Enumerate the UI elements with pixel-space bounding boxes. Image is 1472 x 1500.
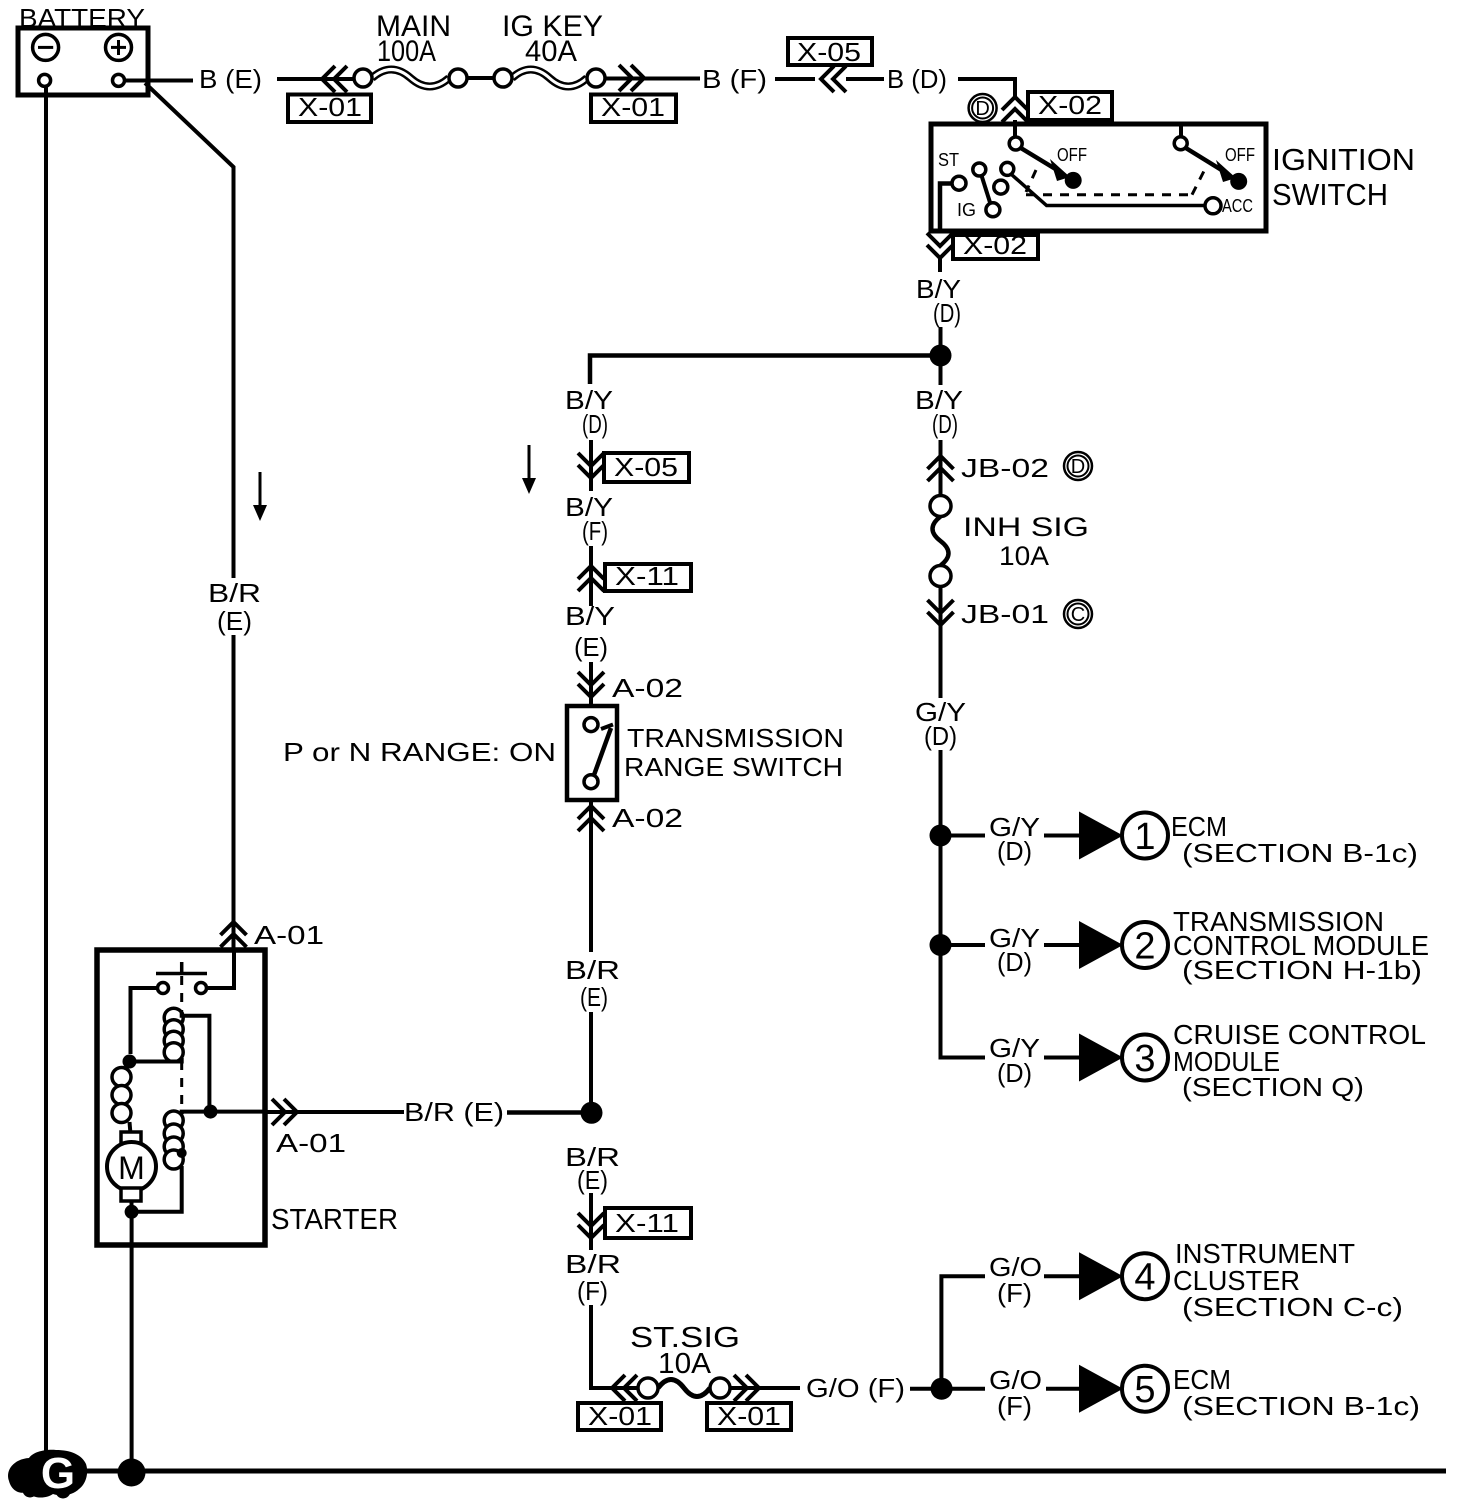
connector JB-01 chevron <box>928 600 954 625</box>
connector X-11 chevron <box>578 566 604 591</box>
starter relay feed wire <box>207 950 234 988</box>
label STARTER <box>271 1204 398 1236</box>
svg-text:B/R (E): B/R (E) <box>404 1097 504 1127</box>
connector X-01 chevron bottom-left <box>612 1375 637 1401</box>
wire B(F) to X-05 <box>775 77 815 81</box>
svg-text:(F): (F) <box>582 516 608 546</box>
wire B(D) to ignition switch <box>958 79 1015 98</box>
connector X-11 box lower <box>605 1208 691 1238</box>
wire right col <box>939 440 943 495</box>
svg-text:M: M <box>118 1150 145 1186</box>
ignition switch right stub <box>1179 126 1183 138</box>
wire branch 2 <box>941 943 1080 947</box>
label cruise control module <box>1173 1019 1426 1102</box>
connector X-11 chevron lower <box>578 1213 604 1238</box>
label G/Y (D) branch1 <box>989 812 1040 866</box>
label IG <box>957 200 976 220</box>
svg-text:A-02: A-02 <box>612 673 683 703</box>
label G/Y (D) <box>915 697 966 751</box>
connector X-05 chevron left-column <box>578 453 604 478</box>
label B(D) <box>887 64 947 94</box>
node G/O junction <box>931 1378 953 1400</box>
arrow 3 cruise <box>1079 1034 1168 1082</box>
ignition switch contact B <box>1009 137 1022 150</box>
connector A-01 chevron <box>221 922 247 947</box>
label B/Y (D) right col <box>915 385 963 439</box>
svg-text:(E): (E) <box>580 982 608 1012</box>
svg-text:X-05: X-05 <box>797 37 861 67</box>
connector X-01 chevron bottom-right <box>734 1375 759 1401</box>
node starter output <box>204 1105 218 1119</box>
svg-text:40A: 40A <box>525 35 577 68</box>
svg-text:100A: 100A <box>377 35 436 68</box>
fuse INH SIG 10A <box>930 496 951 587</box>
connector X-02 chevron lower <box>927 233 953 258</box>
svg-text:IG: IG <box>957 200 976 220</box>
svg-text:X-01: X-01 <box>717 1401 781 1431</box>
svg-text:G: G <box>41 1449 75 1498</box>
svg-text:(E): (E) <box>217 606 252 636</box>
starter hold-in coil <box>164 1111 183 1169</box>
label B/Y (F) <box>565 492 613 546</box>
svg-text:(D): (D) <box>997 947 1032 977</box>
wire to ST.SIG fuse <box>591 1305 638 1388</box>
transmission range switch box <box>567 706 617 800</box>
svg-text:B/Y: B/Y <box>565 601 615 631</box>
flow arrow middle <box>522 445 536 494</box>
svg-text:(SECTION B-1c): (SECTION B-1c) <box>1182 838 1418 868</box>
label B/R (E) below junction <box>565 1142 620 1195</box>
connector A-02 chevron upper <box>578 672 604 697</box>
starter field coil <box>112 1068 131 1123</box>
starter motor brush top <box>121 1132 141 1145</box>
starter relay contact right <box>196 983 207 994</box>
svg-text:D: D <box>1071 456 1085 478</box>
label B(F) <box>702 64 767 94</box>
label A-02 upper <box>612 673 683 703</box>
wire fuse to B(F) <box>605 77 700 81</box>
connector X-01 chevron left <box>322 66 347 92</box>
svg-text:(D): (D) <box>933 298 961 328</box>
wire below range switch <box>589 800 593 952</box>
wire branch 4 right <box>1044 1274 1079 1278</box>
svg-text:P or N RANGE: ON: P or N RANGE: ON <box>283 737 556 767</box>
svg-text:D: D <box>975 98 989 120</box>
connector JB-02 chevron <box>928 456 954 481</box>
svg-text:OFF: OFF <box>1057 145 1087 165</box>
svg-text:JB-02: JB-02 <box>961 453 1049 483</box>
fuse ST.SIG 10A <box>638 1378 730 1398</box>
svg-text:(D): (D) <box>997 836 1032 866</box>
ignition switch lever left <box>1020 148 1082 189</box>
svg-text:X-11: X-11 <box>615 561 679 591</box>
label IG KEY 40A <box>502 10 603 68</box>
svg-text:5: 5 <box>1134 1369 1155 1411</box>
wire right column below junction <box>939 356 943 386</box>
connector letter C circled JB-01 <box>1064 600 1092 628</box>
connector X-01 box bottom-left <box>578 1401 661 1431</box>
starter relay wire left <box>131 988 158 1054</box>
wire fuse to G/O <box>730 1386 800 1390</box>
wire pull-in coil bottom <box>130 1058 182 1062</box>
starter motor brush bottom <box>121 1188 141 1201</box>
svg-text:RANGE SWITCH: RANGE SWITCH <box>624 752 843 782</box>
wire B/R(E) battery diagonal <box>145 83 234 578</box>
node starter field junction <box>123 1055 137 1069</box>
label OFF left <box>1057 145 1087 165</box>
connector A-01 chevron output <box>272 1099 297 1125</box>
svg-text:INH SIG: INH SIG <box>963 512 1089 542</box>
connector letter D circled <box>969 94 997 122</box>
wire below INH fuse <box>939 587 943 698</box>
label OFF right <box>1225 145 1255 165</box>
label P or N RANGE ON <box>283 737 556 767</box>
label A-01 output <box>276 1128 346 1158</box>
wire left B/Y <box>589 440 593 491</box>
svg-text:ST: ST <box>938 150 959 170</box>
node G/Y branch 1 <box>930 825 952 847</box>
fuse IG KEY 40A <box>494 69 605 87</box>
label TRANSMISSION RANGE SWITCH <box>624 723 844 782</box>
svg-text:4: 4 <box>1134 1257 1155 1299</box>
connector X-11 box <box>605 561 691 591</box>
range switch contact bottom <box>584 775 598 789</box>
ignition switch contact IG pair <box>973 163 1000 217</box>
node plunger end <box>177 1148 187 1158</box>
svg-text:OFF: OFF <box>1225 145 1255 165</box>
svg-text:X-02: X-02 <box>963 230 1027 260</box>
svg-text:B/R: B/R <box>208 578 261 608</box>
connector X-01 chevron right <box>619 65 644 91</box>
wire branch 3 corner <box>941 1056 1080 1058</box>
ground symbol G <box>8 1449 87 1499</box>
arrow 2 TCM <box>1079 921 1168 969</box>
ignition switch contact ACC pair <box>994 162 1014 194</box>
svg-text:(D): (D) <box>997 1058 1032 1088</box>
wire left column 3 <box>589 1193 593 1250</box>
node ground junction <box>118 1459 146 1487</box>
svg-text:X-02: X-02 <box>1038 90 1102 120</box>
label A-01 upper <box>254 920 324 950</box>
label ECM section B-1c lower <box>1173 1364 1420 1421</box>
wire branch 1 <box>941 834 1080 838</box>
svg-text:(SECTION Q): (SECTION Q) <box>1182 1072 1364 1102</box>
svg-text:1: 1 <box>1134 816 1155 858</box>
connector X-05 box <box>788 37 872 67</box>
svg-text:A-01: A-01 <box>276 1128 346 1158</box>
label instrument cluster <box>1173 1238 1403 1322</box>
svg-text:A-02: A-02 <box>612 803 683 833</box>
svg-text:(D): (D) <box>924 721 957 751</box>
node junction B/Y <box>930 345 952 367</box>
wire below X-02 <box>938 259 942 272</box>
wire G/O to junction <box>910 1387 942 1391</box>
wire field coil to motor <box>130 1122 131 1134</box>
connector X-02 box upper <box>1028 90 1112 120</box>
ignition switch lever right <box>1185 148 1247 190</box>
wire B/R to starter <box>232 635 236 950</box>
label ST.SIG 10A <box>630 1322 740 1380</box>
svg-text:10A: 10A <box>999 541 1049 571</box>
node B/R junction <box>581 1102 603 1124</box>
label B/Y (D) upper right <box>916 274 961 328</box>
svg-text:10A: 10A <box>658 1348 712 1380</box>
svg-text:ACC: ACC <box>1222 196 1253 216</box>
label G/O (F) inline <box>806 1373 905 1403</box>
svg-text:(E): (E) <box>577 1165 608 1195</box>
range switch contact top <box>584 718 598 732</box>
label B/R (F) <box>565 1249 621 1306</box>
svg-text:(SECTION B-1c): (SECTION B-1c) <box>1182 1391 1420 1421</box>
starter relay contact bar <box>156 962 207 974</box>
ignition switch contact right <box>1174 137 1187 150</box>
fuse MAIN 100A <box>354 69 467 87</box>
svg-text:G/O (F): G/O (F) <box>806 1373 905 1403</box>
label B/Y (D) left <box>565 385 613 439</box>
svg-text:IGNITION: IGNITION <box>1272 142 1415 177</box>
node G/Y branch 2 <box>930 934 952 956</box>
svg-text:(E): (E) <box>574 632 608 662</box>
svg-text:A-01: A-01 <box>254 920 324 950</box>
label ECM section B-1c <box>1171 811 1418 868</box>
svg-text:TRANSMISSION: TRANSMISSION <box>627 723 844 753</box>
wire B/R(E) to junction <box>507 1110 591 1115</box>
wire branch 5 <box>952 1387 1079 1391</box>
wire into ignition switch <box>1013 120 1017 139</box>
connector X-01 box left <box>288 92 371 122</box>
label JB-02 <box>961 453 1049 483</box>
svg-text:JB-01: JB-01 <box>961 599 1049 629</box>
label G/O (F) branch4 <box>989 1252 1042 1308</box>
ignition switch U1 box <box>931 124 1266 231</box>
label B/Y (E) <box>565 601 615 662</box>
svg-text:(SECTION H-1b): (SECTION H-1b) <box>1182 955 1422 985</box>
svg-text:SWITCH: SWITCH <box>1272 177 1388 212</box>
wire ground bus <box>82 1469 1446 1474</box>
wire to BR junction <box>589 1012 593 1113</box>
wire starter to ground <box>130 1214 134 1473</box>
arrow 4 instrument cluster <box>1079 1252 1168 1300</box>
starter pull-in coil <box>164 1008 183 1062</box>
starter M1 box <box>97 950 265 1245</box>
svg-text:C: C <box>1071 604 1085 626</box>
svg-text:X-01: X-01 <box>588 1401 652 1431</box>
label G/O (F) branch5 <box>989 1365 1042 1421</box>
ignition switch contact ST <box>952 176 966 190</box>
svg-text:3: 3 <box>1134 1038 1155 1080</box>
label B/R (E) on battery wire <box>208 578 261 636</box>
ignition switch linkage dashed <box>1026 170 1204 195</box>
label ST <box>938 150 959 170</box>
wire between fuses <box>467 76 494 80</box>
wire B(E) from battery positive <box>124 79 193 83</box>
wire starter bottom link <box>132 1166 182 1212</box>
label ACC <box>1222 196 1253 216</box>
svg-text:(F): (F) <box>997 1391 1032 1421</box>
starter motor M <box>107 1142 156 1191</box>
connector X-01 box bottom-right <box>707 1401 791 1431</box>
label MAIN 100A <box>376 10 451 68</box>
connector X-05 box left-column <box>604 452 689 482</box>
wire left column 2 <box>589 662 593 708</box>
battery BATT <box>18 28 148 95</box>
connector X-01 box right <box>591 92 676 122</box>
label B(E) <box>199 64 262 94</box>
svg-text:B (E): B (E) <box>199 64 262 94</box>
label TCM section <box>1173 906 1429 985</box>
label JB-01 <box>961 599 1049 629</box>
wire ACC contact line <box>1012 175 1222 214</box>
arrow 5 ECM <box>1079 1365 1168 1413</box>
arrow 1 ECM <box>1079 812 1168 860</box>
svg-text:2: 2 <box>1134 926 1155 968</box>
flow arrow left <box>253 472 267 521</box>
svg-text:(SECTION C-c): (SECTION C-c) <box>1182 1292 1403 1322</box>
connector letter D circled JB-02 <box>1064 452 1092 480</box>
label B/R (E) mid <box>565 955 620 1012</box>
svg-text:B/R: B/R <box>565 955 620 985</box>
svg-text:STARTER: STARTER <box>271 1204 398 1236</box>
svg-text:(D): (D) <box>932 409 958 439</box>
wire junction horizontal <box>590 356 941 385</box>
wire left column <box>589 546 593 606</box>
wire ST contact out of switch <box>940 184 952 232</box>
svg-text:X-11: X-11 <box>615 1208 679 1238</box>
starter plunger dashed <box>180 976 183 1148</box>
connector X-02 box lower <box>953 230 1038 260</box>
wire motor to node <box>130 1201 134 1214</box>
svg-text:X-01: X-01 <box>298 92 362 122</box>
battery label <box>19 3 145 33</box>
node starter bottom <box>125 1205 139 1219</box>
starter relay contact left <box>158 983 169 994</box>
wire X-05 to B(D) <box>846 77 884 81</box>
label G/Y (D) branch3 <box>989 1033 1040 1088</box>
wire pull-in coil top <box>182 1012 210 1112</box>
svg-text:B/R: B/R <box>565 1249 621 1279</box>
wire B(E) to fuse <box>277 77 354 81</box>
wire hold-in coil top <box>182 1112 266 1114</box>
wire branch 4 corner <box>941 1276 985 1389</box>
connector X-05 chevron <box>821 66 846 92</box>
svg-text:(F): (F) <box>997 1278 1032 1308</box>
label B/R (E) horizontal <box>404 1097 504 1127</box>
wire battery negative to ground <box>44 86 48 1458</box>
wire G/Y down <box>939 750 943 1058</box>
wire starter output B/R(E) <box>266 1110 404 1114</box>
connector A-02 chevron lower <box>578 806 604 831</box>
label INH SIG 10A <box>963 512 1089 571</box>
ignition switch label <box>1272 142 1415 212</box>
svg-text:B (D): B (D) <box>887 64 947 94</box>
svg-text:(F): (F) <box>577 1276 608 1306</box>
label A-02 lower <box>612 803 683 833</box>
svg-text:B (F): B (F) <box>702 64 767 94</box>
svg-text:X-01: X-01 <box>601 92 665 122</box>
svg-text:X-05: X-05 <box>614 452 678 482</box>
label G/Y (D) branch2 <box>989 923 1040 977</box>
range switch lever <box>594 725 613 776</box>
wire to junction <box>939 327 943 356</box>
svg-text:(D): (D) <box>582 409 608 439</box>
connector X-02 chevron upper <box>1002 97 1028 122</box>
